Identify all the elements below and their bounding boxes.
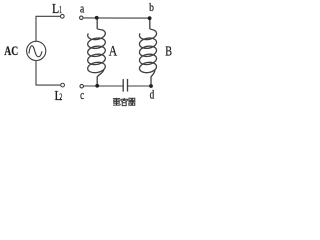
wire AC top to L1 <box>36 16 60 41</box>
terminal L2 <box>61 83 65 87</box>
terminal L1 <box>60 14 64 18</box>
svg-text:2: 2 <box>59 93 62 103</box>
AC source sine wave <box>29 46 42 57</box>
wire AC bottom to L2 <box>36 61 61 86</box>
capacitor C left plate <box>122 79 124 92</box>
inductor coil B <box>139 19 158 85</box>
svg-text:1: 1 <box>59 5 62 16</box>
node b junction <box>148 16 152 20</box>
inductor coil A <box>87 19 106 85</box>
svg-text:AC: AC <box>4 44 18 58</box>
AC source G1 circle <box>27 41 46 60</box>
node d junction <box>149 84 153 88</box>
svg-text:B: B <box>165 44 172 59</box>
capacitor value label dian-rong-qi <box>113 98 135 106</box>
node junction below coil A <box>95 84 99 88</box>
wire a to b (top) <box>83 17 150 19</box>
wire capacitor right to d <box>128 85 152 87</box>
node junction above coil A <box>95 16 99 20</box>
svg-text:b: b <box>149 2 154 14</box>
terminal a <box>80 16 84 20</box>
svg-text:c: c <box>80 87 84 102</box>
svg-text:d: d <box>150 88 155 102</box>
wire c to capacitor left plate <box>84 85 123 87</box>
terminal c <box>80 84 84 88</box>
capacitor C right plate <box>127 79 129 92</box>
svg-text:A: A <box>109 43 118 59</box>
svg-text:a: a <box>80 0 84 15</box>
